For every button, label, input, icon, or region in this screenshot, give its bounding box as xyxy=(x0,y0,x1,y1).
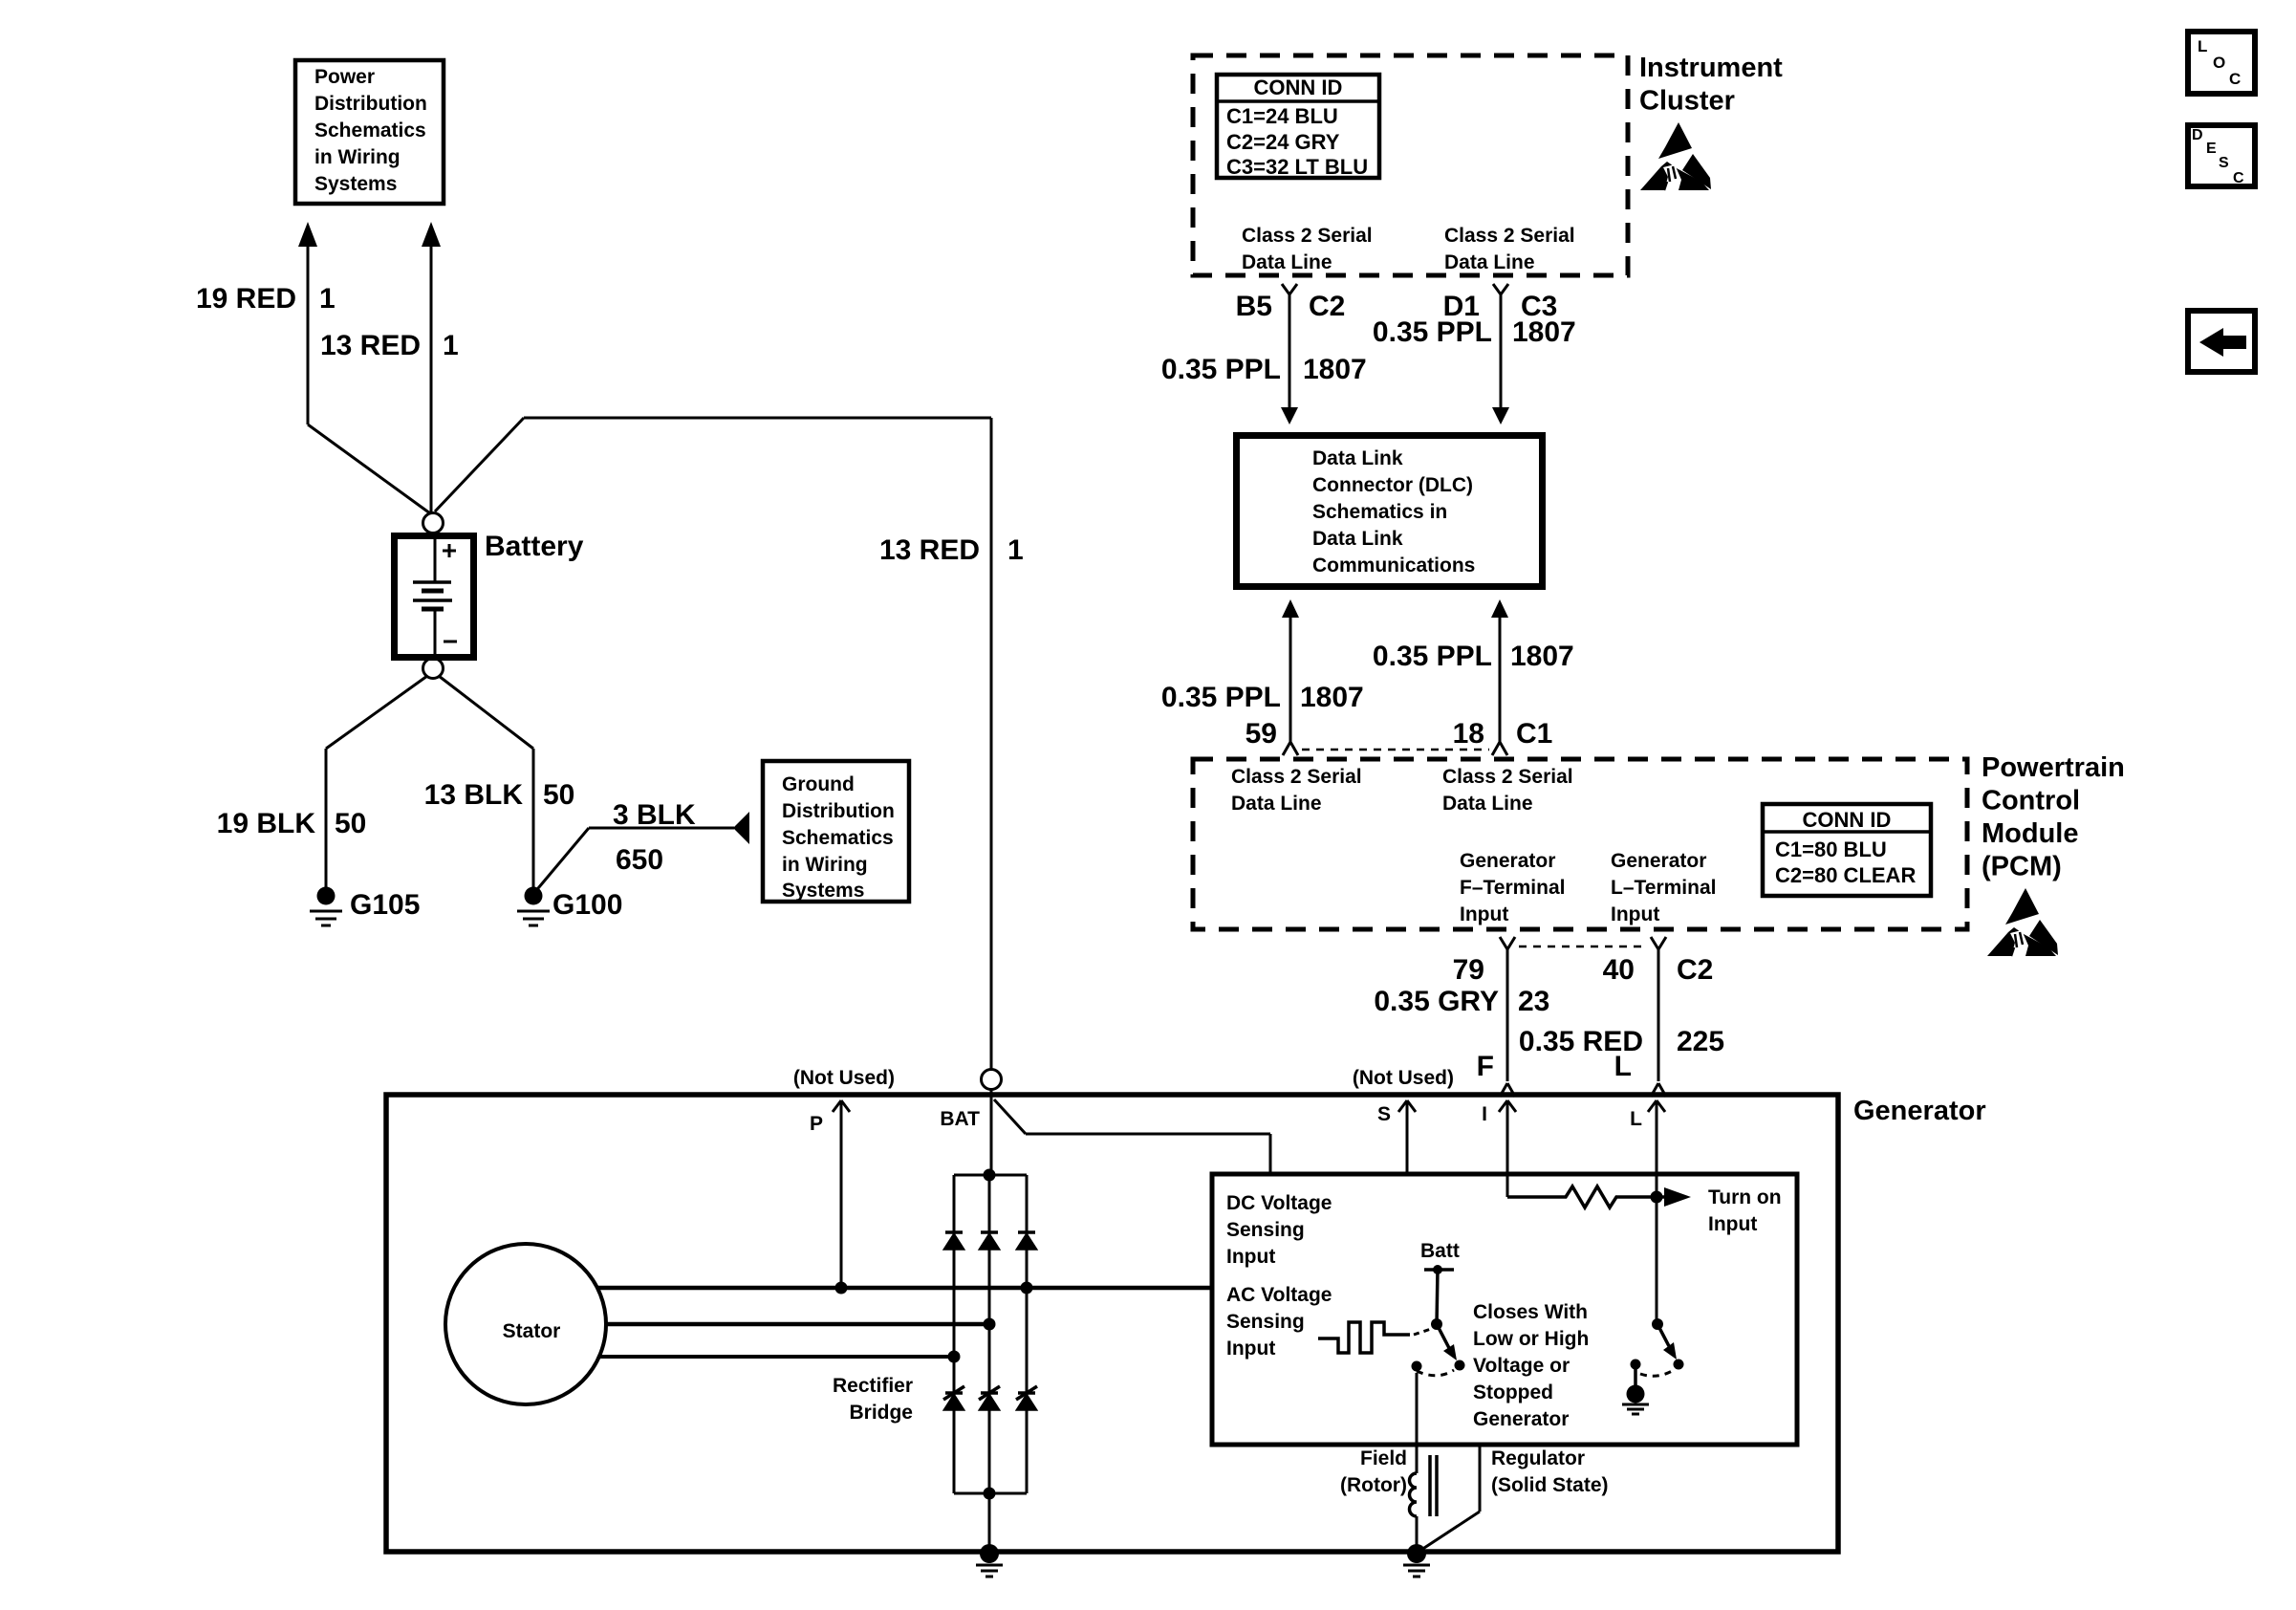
svg-text:Instrument: Instrument xyxy=(1639,53,1783,83)
svg-text:(Solid State): (Solid State) xyxy=(1491,1474,1609,1496)
svg-text:Sensing: Sensing xyxy=(1226,1311,1305,1333)
svg-text:S: S xyxy=(1377,1103,1391,1125)
svg-text:C: C xyxy=(2229,70,2241,88)
svg-text:Generator: Generator xyxy=(1473,1408,1569,1430)
svg-text:(Rotor): (Rotor) xyxy=(1340,1474,1407,1496)
svg-text:C1=80 BLU: C1=80 BLU xyxy=(1775,838,1887,861)
svg-text:(Not Used): (Not Used) xyxy=(1353,1067,1454,1089)
svg-text:0.35 GRY: 0.35 GRY xyxy=(1374,986,1499,1017)
svg-text:13 BLK: 13 BLK xyxy=(424,779,524,811)
svg-text:Connector (DLC): Connector (DLC) xyxy=(1312,474,1473,496)
svg-text:L: L xyxy=(1614,1051,1632,1082)
svg-text:Cluster: Cluster xyxy=(1639,86,1735,117)
svg-text:Generator: Generator xyxy=(1853,1096,1986,1126)
svg-text:Systems: Systems xyxy=(314,173,397,195)
svg-text:Turn on: Turn on xyxy=(1708,1186,1782,1208)
svg-text:CONN ID: CONN ID xyxy=(1254,76,1343,99)
svg-text:Schematics: Schematics xyxy=(314,120,426,141)
svg-text:Stopped: Stopped xyxy=(1473,1382,1553,1403)
svg-text:50: 50 xyxy=(543,779,574,811)
svg-text:1807: 1807 xyxy=(1303,354,1367,385)
svg-text:P: P xyxy=(810,1113,823,1135)
svg-text:D: D xyxy=(2192,127,2203,143)
svg-text:0.35 PPL: 0.35 PPL xyxy=(1161,354,1281,385)
svg-text:50: 50 xyxy=(335,808,366,839)
svg-text:Regulator: Regulator xyxy=(1491,1447,1585,1469)
svg-text:Low or High: Low or High xyxy=(1473,1328,1589,1350)
svg-text:0.35 PPL: 0.35 PPL xyxy=(1373,641,1492,672)
svg-text:Distribution: Distribution xyxy=(314,93,427,115)
svg-text:Control: Control xyxy=(1982,786,2080,816)
svg-text:C2: C2 xyxy=(1309,291,1345,322)
svg-text:79: 79 xyxy=(1453,954,1484,986)
svg-text:AC Voltage: AC Voltage xyxy=(1226,1284,1332,1306)
svg-text:Generator: Generator xyxy=(1611,850,1706,872)
svg-text:B5: B5 xyxy=(1236,291,1272,322)
svg-text:C2=24 GRY: C2=24 GRY xyxy=(1226,130,1340,154)
svg-text:Class 2 Serial: Class 2 Serial xyxy=(1444,225,1575,247)
svg-text:C2: C2 xyxy=(1677,954,1713,986)
svg-text:1807: 1807 xyxy=(1510,641,1574,672)
svg-text:Data Line: Data Line xyxy=(1242,251,1332,273)
svg-text:(PCM): (PCM) xyxy=(1982,852,2062,882)
svg-text:Battery: Battery xyxy=(485,531,584,562)
svg-text:18: 18 xyxy=(1453,718,1484,750)
svg-text:Powertrain: Powertrain xyxy=(1982,752,2125,783)
svg-text:13 RED: 13 RED xyxy=(879,534,980,566)
svg-text:1807: 1807 xyxy=(1512,316,1576,348)
svg-text:225: 225 xyxy=(1677,1026,1724,1057)
svg-text:C: C xyxy=(2233,170,2244,186)
svg-text:1: 1 xyxy=(1007,534,1024,566)
svg-text:Batt: Batt xyxy=(1420,1240,1460,1262)
svg-text:19 BLK: 19 BLK xyxy=(217,808,316,839)
svg-text:BAT: BAT xyxy=(940,1108,980,1130)
svg-text:Data Link: Data Link xyxy=(1312,528,1403,550)
svg-text:in Wiring: in Wiring xyxy=(314,146,401,168)
svg-text:G105: G105 xyxy=(350,889,420,921)
svg-text:Ground: Ground xyxy=(782,773,855,795)
svg-text:40: 40 xyxy=(1603,954,1635,986)
svg-text:3 BLK: 3 BLK xyxy=(613,799,696,831)
svg-text:650: 650 xyxy=(616,844,663,876)
svg-text:Class 2 Serial: Class 2 Serial xyxy=(1442,766,1573,788)
svg-text:Class 2 Serial: Class 2 Serial xyxy=(1242,225,1373,247)
svg-text:L: L xyxy=(2198,37,2207,55)
svg-text:L: L xyxy=(1630,1108,1642,1130)
svg-text:1807: 1807 xyxy=(1300,682,1364,713)
svg-text:19 RED: 19 RED xyxy=(196,283,296,315)
svg-text:0.35 PPL: 0.35 PPL xyxy=(1373,316,1492,348)
svg-text:Field: Field xyxy=(1360,1447,1407,1469)
svg-text:S: S xyxy=(2219,155,2229,171)
svg-text:1: 1 xyxy=(443,330,459,361)
svg-text:Rectifier: Rectifier xyxy=(833,1375,913,1397)
svg-text:1: 1 xyxy=(319,283,336,315)
svg-text:CONN ID: CONN ID xyxy=(1803,808,1892,832)
svg-text:Data Line: Data Line xyxy=(1442,793,1533,815)
svg-text:Input: Input xyxy=(1226,1338,1275,1360)
svg-text:(Not Used): (Not Used) xyxy=(793,1067,895,1089)
svg-text:Stator: Stator xyxy=(503,1320,561,1342)
svg-text:Power: Power xyxy=(314,66,375,88)
svg-text:C1: C1 xyxy=(1516,718,1552,750)
svg-text:Distribution: Distribution xyxy=(782,800,895,822)
svg-text:Input: Input xyxy=(1460,903,1508,925)
svg-text:Generator: Generator xyxy=(1460,850,1555,872)
svg-text:Data Line: Data Line xyxy=(1231,793,1322,815)
svg-text:Class 2 Serial: Class 2 Serial xyxy=(1231,766,1362,788)
svg-text:59: 59 xyxy=(1245,718,1277,750)
svg-text:0.35 PPL: 0.35 PPL xyxy=(1161,682,1281,713)
svg-text:Module: Module xyxy=(1982,818,2079,849)
svg-text:Input: Input xyxy=(1708,1213,1757,1235)
svg-text:Communications: Communications xyxy=(1312,555,1475,577)
svg-text:E: E xyxy=(2206,141,2217,157)
svg-text:Data Line: Data Line xyxy=(1444,251,1535,273)
svg-text:Input: Input xyxy=(1226,1246,1275,1268)
svg-text:Schematics: Schematics xyxy=(782,827,894,849)
svg-text:L–Terminal: L–Terminal xyxy=(1611,877,1716,899)
svg-text:C3=32 LT BLU: C3=32 LT BLU xyxy=(1226,155,1368,179)
svg-text:Voltage or: Voltage or xyxy=(1473,1355,1570,1377)
svg-text:F–Terminal: F–Terminal xyxy=(1460,877,1565,899)
svg-text:13 RED: 13 RED xyxy=(320,330,421,361)
svg-text:C2=80 CLEAR: C2=80 CLEAR xyxy=(1775,863,1916,887)
svg-text:Sensing: Sensing xyxy=(1226,1219,1305,1241)
svg-text:C1=24 BLU: C1=24 BLU xyxy=(1226,104,1338,128)
svg-text:F: F xyxy=(1477,1051,1494,1082)
svg-text:Input: Input xyxy=(1611,903,1659,925)
svg-text:Closes With: Closes With xyxy=(1473,1301,1588,1323)
svg-text:Data Link: Data Link xyxy=(1312,447,1403,469)
svg-text:DC Voltage: DC Voltage xyxy=(1226,1192,1332,1214)
svg-text:Schematics in: Schematics in xyxy=(1312,501,1447,523)
svg-text:Bridge: Bridge xyxy=(849,1402,913,1424)
svg-text:I: I xyxy=(1482,1103,1487,1125)
svg-text:23: 23 xyxy=(1518,986,1549,1017)
svg-text:in Wiring: in Wiring xyxy=(782,854,868,876)
svg-text:Systems: Systems xyxy=(782,880,864,902)
svg-text:G100: G100 xyxy=(552,889,622,921)
svg-text:O: O xyxy=(2213,54,2225,72)
